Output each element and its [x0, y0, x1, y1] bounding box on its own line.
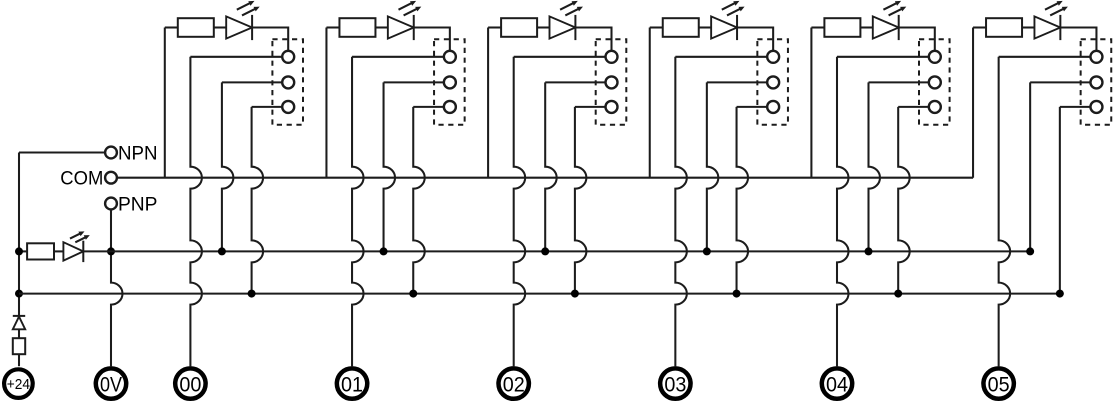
svg-text:COM: COM	[60, 168, 103, 190]
LED D4	[550, 16, 576, 38]
connector J5	[919, 39, 950, 125]
wire feed ch05	[972, 28, 974, 178]
connector J2	[434, 39, 465, 125]
wire	[899, 28, 935, 51]
terminal +24	[4, 369, 33, 398]
junction	[15, 247, 23, 255]
pin 1	[1090, 51, 1102, 63]
resistor left	[27, 243, 54, 259]
terminal 02	[499, 368, 529, 398]
wire	[413, 106, 444, 108]
COM bus wire	[117, 177, 973, 179]
bus2 wire	[83, 250, 1030, 252]
junction PNP-bus2	[107, 247, 115, 255]
svg-text:+24: +24	[7, 377, 30, 393]
wire	[707, 81, 767, 83]
junction	[15, 290, 23, 298]
wire	[575, 28, 611, 51]
wire	[999, 56, 1091, 58]
wire pin3 to bus3	[413, 107, 425, 294]
LED arrows	[70, 234, 80, 239]
junction	[541, 247, 549, 255]
terminal NPN	[105, 147, 117, 159]
wire	[252, 106, 283, 108]
terminal 01	[337, 368, 367, 398]
resistor R6	[986, 18, 1022, 37]
wire	[19, 151, 105, 153]
wire	[898, 106, 929, 108]
pin 3	[929, 101, 941, 113]
LED D6	[873, 16, 899, 38]
pin 3	[444, 101, 456, 113]
wire feed ch04	[810, 28, 812, 178]
wire	[737, 106, 768, 108]
wire	[18, 153, 20, 316]
resistor R4	[663, 18, 699, 37]
pin 2	[444, 76, 456, 88]
resistor R5	[824, 18, 860, 37]
wire pin2 to bus2	[869, 82, 880, 251]
diode D1	[13, 315, 25, 317]
terminal 04	[822, 368, 852, 398]
svg-text:00: 00	[179, 373, 201, 396]
wire	[214, 26, 226, 28]
wire	[222, 81, 282, 83]
wire pin3 to bus3	[1059, 107, 1061, 294]
junction	[1056, 290, 1064, 298]
pin 2	[282, 76, 294, 88]
terminal 00	[175, 368, 205, 398]
wire	[375, 26, 387, 28]
wire pin2 to bus2	[222, 82, 233, 251]
LED arrows	[1045, 3, 1058, 10]
terminal 0V	[96, 368, 126, 398]
pin 1	[444, 51, 456, 63]
wire feed ch00	[164, 28, 166, 178]
junction	[218, 247, 226, 255]
wire	[384, 81, 444, 83]
wire	[837, 56, 929, 58]
terminal COM	[105, 172, 117, 184]
wire	[18, 329, 20, 338]
wire pin3 to bus3	[898, 107, 910, 294]
junction	[248, 290, 256, 298]
wire pin1 to terminal	[352, 57, 364, 366]
pin 2	[606, 76, 618, 88]
wire	[414, 28, 450, 51]
junction	[571, 290, 579, 298]
LED arrows	[237, 3, 250, 10]
svg-text:03: 03	[664, 373, 686, 396]
wire	[575, 106, 606, 108]
svg-text:PNP: PNP	[118, 193, 158, 215]
connector J4	[757, 39, 788, 125]
wire	[675, 56, 767, 58]
wire pin3 to bus3	[575, 107, 587, 294]
LED arrows	[883, 3, 896, 10]
LED D7	[1034, 16, 1060, 38]
wire	[326, 26, 339, 28]
wire	[699, 26, 711, 28]
wire	[650, 26, 663, 28]
pin 2	[767, 76, 779, 88]
wire pin1 to terminal	[190, 57, 202, 366]
pin 3	[767, 101, 779, 113]
wire	[1060, 28, 1096, 51]
terminal 03	[660, 368, 690, 398]
resistor R1	[178, 18, 214, 37]
junction	[733, 290, 741, 298]
wire pin1 to terminal	[837, 57, 849, 366]
svg-text:01: 01	[341, 373, 363, 396]
pin 1	[767, 51, 779, 63]
wire	[488, 26, 501, 28]
terminal 05	[983, 368, 1013, 398]
wire	[811, 26, 824, 28]
connector J3	[596, 39, 627, 125]
LED left	[63, 242, 83, 260]
wire	[860, 26, 872, 28]
LED D3	[388, 16, 414, 38]
wire	[54, 250, 63, 252]
wire	[352, 56, 444, 58]
pin 2	[929, 76, 941, 88]
pin 3	[1090, 101, 1102, 113]
wire	[165, 26, 178, 28]
wire feed ch03	[649, 28, 651, 178]
pin 3	[606, 101, 618, 113]
pin 2	[1090, 76, 1102, 88]
wire	[537, 26, 549, 28]
wire pin2 to bus2	[545, 82, 556, 251]
pin 1	[606, 51, 618, 63]
wire feed ch01	[325, 28, 327, 178]
junction	[380, 247, 388, 255]
junction	[894, 290, 902, 298]
pin 1	[282, 51, 294, 63]
wire	[973, 26, 986, 28]
wire	[1030, 81, 1090, 83]
wire	[19, 250, 27, 252]
junction	[1026, 247, 1034, 255]
wire	[737, 28, 773, 51]
pin 3	[282, 101, 294, 113]
junction	[703, 247, 711, 255]
wire pin3 to bus3	[737, 107, 749, 294]
wire	[18, 354, 20, 366]
wire pin2 to bus2	[1029, 82, 1031, 251]
connector J1	[272, 39, 303, 125]
svg-text:0V: 0V	[100, 373, 122, 396]
wire pin1 to terminal	[999, 57, 1011, 366]
LED arrows	[560, 3, 573, 10]
wire feed ch02	[487, 28, 489, 178]
svg-text:NPN: NPN	[118, 142, 158, 164]
wire pin1 to terminal	[514, 57, 526, 366]
LED arrows	[722, 3, 735, 10]
LED D5	[711, 16, 737, 38]
wire pin1 to terminal	[675, 57, 687, 366]
wire	[1022, 26, 1034, 28]
wire	[252, 28, 288, 51]
wire	[545, 81, 605, 83]
connector J6	[1081, 39, 1112, 125]
wire pin3 to bus3	[252, 107, 264, 294]
resistor R2	[339, 18, 375, 37]
pin 1	[929, 51, 941, 63]
wire pin2 to bus2	[707, 82, 718, 251]
wire	[869, 81, 929, 83]
resistor R3	[501, 18, 537, 37]
svg-text:04: 04	[826, 373, 848, 396]
wire	[514, 56, 606, 58]
junction	[409, 290, 417, 298]
LED arrows	[399, 3, 412, 10]
wire PNP to 0V	[111, 209, 123, 366]
wire	[1060, 106, 1091, 108]
bus3 wire	[19, 293, 1060, 295]
terminal PNP	[105, 198, 117, 210]
wire pin2 to bus2	[384, 82, 395, 251]
svg-text:02: 02	[503, 373, 525, 396]
svg-text:05: 05	[988, 373, 1010, 396]
junction	[865, 247, 873, 255]
LED D2	[226, 16, 252, 38]
resistor R0	[13, 338, 25, 354]
wire	[190, 56, 282, 58]
